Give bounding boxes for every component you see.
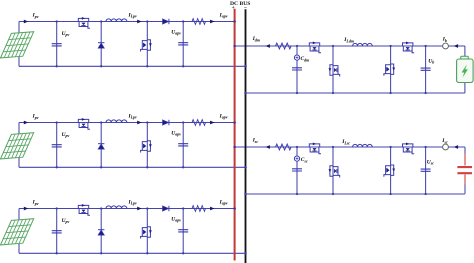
battery body	[457, 59, 474, 83]
supercap converter chain	[233, 143, 465, 196]
svg-text:+: +	[232, 5, 235, 11]
PV converter row 1	[1, 12, 247, 67]
wire supercap bottom	[464, 185, 466, 194]
svg-text:Isc: Isc	[252, 138, 259, 144]
battery lightning bolt	[462, 64, 468, 77]
svg-text:Cdm: Cdm	[301, 56, 310, 62]
supercap bottom lead red	[464, 175, 466, 185]
supercapacitor plates	[457, 167, 472, 173]
wire supercap top	[464, 147, 466, 154]
supercap top lead red	[464, 154, 466, 166]
DC bus positive (red)	[234, 9, 236, 261]
wire battery top	[464, 46, 466, 56]
svg-text:−: −	[244, 5, 247, 11]
svg-text:Ub: Ub	[428, 58, 434, 64]
svg-text:Ib: Ib	[442, 37, 447, 43]
battery converter chain	[233, 42, 465, 95]
svg-text:Isc: Isc	[441, 138, 448, 144]
svg-text:Usc: Usc	[427, 159, 434, 165]
svg-text:Csc: Csc	[301, 157, 308, 163]
battery terminal nub	[461, 56, 469, 59]
bus junction dots red	[233, 20, 236, 23]
wire battery bottom	[464, 83, 466, 94]
svg-text:ILdm: ILdm	[343, 37, 354, 43]
DC bus negative (black)	[245, 9, 247, 263]
svg-text:Idm: Idm	[252, 36, 260, 42]
PV converter row 2	[1, 113, 247, 168]
svg-text:ILsc: ILsc	[341, 139, 350, 145]
bus junction dots black	[244, 65, 247, 68]
PV converter row 3	[1, 199, 247, 254]
